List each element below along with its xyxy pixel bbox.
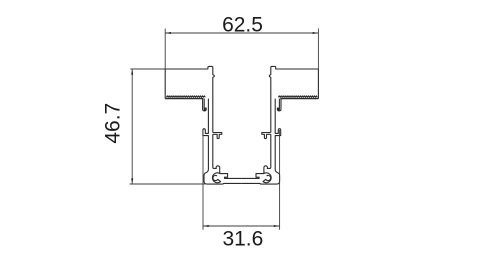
dim 46.7 extension line top bbox=[130, 68, 165, 70]
dim 31.6 extension line right bbox=[279, 130, 281, 230]
arrowhead 46.7 bottom bbox=[131, 178, 133, 183]
dim 62.5 extension line left bbox=[164, 29, 166, 70]
dim 31.6 dimension line bbox=[203, 225, 280, 227]
arrowhead 31.6 right bbox=[274, 225, 279, 227]
svg-text:46.7: 46.7 bbox=[102, 103, 125, 144]
arrowhead 31.6 left bbox=[204, 225, 209, 227]
dim 62.5 dimension line bbox=[165, 32, 318, 34]
dim 46.7 dimension line bbox=[131, 69, 133, 184]
svg-text:31.6: 31.6 bbox=[222, 227, 263, 250]
dim 31.6 extension line left bbox=[202, 130, 204, 230]
arrowhead 46.7 top bbox=[131, 69, 133, 74]
arrowhead 62.5 left bbox=[166, 32, 171, 34]
svg-text:62.5: 62.5 bbox=[222, 13, 263, 36]
dim 62.5 extension line right bbox=[317, 29, 319, 70]
arrowhead 62.5 right bbox=[313, 32, 318, 34]
dim 46.7 extension line bottom bbox=[130, 183, 205, 185]
